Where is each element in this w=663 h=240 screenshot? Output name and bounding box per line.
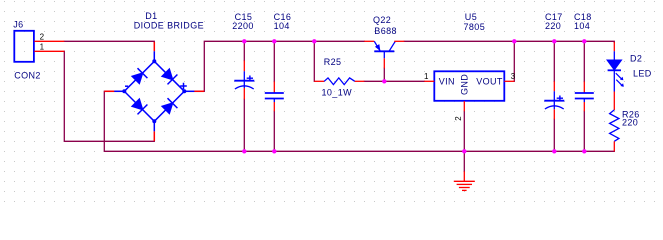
bridge minus mark	[125, 85, 128, 87]
svg-text:LED: LED	[633, 68, 652, 78]
junction C18 bottom rail	[582, 149, 586, 153]
diode bridge D1	[104, 42, 204, 141]
junction Q22 base R25 net	[382, 79, 386, 83]
capacitor C16	[265, 82, 284, 112]
diode D1d triangle+bar (bottom-right edge)	[162, 103, 172, 113]
svg-text:U5: U5	[465, 12, 477, 22]
diode D1a triangle+bar (left-top edge)	[132, 73, 142, 83]
svg-text:DIODE BRIDGE: DIODE BRIDGE	[134, 21, 204, 31]
junction C15 top rail	[242, 39, 246, 43]
wire pin2 top rail left	[64, 41, 154, 42]
capacitor C15 (polarized)	[234, 61, 254, 100]
capacitor C18	[575, 82, 594, 112]
junction C18 top rail	[582, 39, 586, 43]
junction C17 top rail	[552, 39, 556, 43]
wire base to R25 net	[364, 80, 424, 82]
bridge plus mark	[180, 83, 187, 90]
resistor R25	[314, 78, 364, 85]
ground symbol	[454, 171, 475, 190]
diamond edges	[124, 61, 184, 121]
junction U5 VOUT top rail	[512, 39, 516, 43]
wire C18 vertical	[583, 41, 585, 151]
bridge pins red	[104, 42, 204, 141]
svg-text:D2: D2	[630, 53, 642, 63]
svg-text:B688: B688	[374, 26, 397, 36]
svg-text:7805: 7805	[464, 22, 486, 32]
svg-text:3: 3	[511, 72, 516, 81]
svg-text:104: 104	[574, 21, 590, 31]
svg-text:VIN: VIN	[439, 77, 455, 87]
svg-text:2: 2	[454, 116, 463, 121]
wire pin1 down and right	[64, 51, 154, 141]
svg-text:104: 104	[274, 21, 290, 31]
junction U5 GND bottom rail	[462, 149, 466, 153]
diode D1c triangle+bar (left-bottom edge)	[132, 99, 142, 109]
wire Q22 base down	[383, 68, 385, 81]
LED D2	[607, 42, 624, 110]
resistor R26	[610, 110, 619, 151]
wire bridge minus to bottom rail	[104, 91, 614, 151]
wire C15 vertical	[243, 41, 245, 151]
junction C16 top rail	[272, 39, 276, 43]
svg-text:2200: 2200	[232, 21, 254, 31]
wire top rail right of transistor	[404, 41, 614, 42]
wire C16 vertical	[273, 41, 275, 151]
svg-text:R25: R25	[324, 57, 342, 67]
svg-text:10_1W: 10_1W	[322, 87, 353, 97]
junction C16 bottom rail	[272, 149, 276, 153]
wire U5 gnd down	[463, 111, 465, 171]
svg-text:GND: GND	[460, 74, 470, 95]
svg-text:J6: J6	[13, 20, 23, 30]
connector J6	[14, 31, 64, 62]
led emission arrows	[616, 73, 623, 86]
op U5 regulator box	[424, 71, 514, 111]
junction R25 branch top rail	[312, 39, 316, 43]
svg-text:CON2: CON2	[14, 71, 41, 81]
capacitor C17 (polarized)	[544, 81, 564, 119]
wire R25 branch vertical	[313, 41, 315, 81]
diode D1b triangle+bar (top-right edge)	[162, 69, 172, 79]
svg-text:Q22: Q22	[373, 15, 391, 25]
svg-text:D1: D1	[145, 11, 157, 21]
junction C17 bottom rail	[552, 149, 556, 153]
svg-text:220: 220	[545, 21, 561, 31]
transistor Q22	[364, 41, 404, 68]
wire bridge plus up to top rail	[194, 41, 364, 91]
svg-text:VOUT: VOUT	[476, 77, 503, 87]
junction C15 bottom rail	[242, 149, 246, 153]
svg-text:2: 2	[40, 32, 45, 41]
svg-text:1: 1	[40, 42, 45, 51]
bridge leads blue	[153, 51, 155, 61]
svg-text:220: 220	[622, 117, 638, 127]
bridge vertex junction dots	[122, 59, 186, 123]
svg-text:1: 1	[424, 72, 429, 81]
wire U5 vout up	[513, 41, 515, 81]
wire C17 vertical	[553, 41, 555, 151]
